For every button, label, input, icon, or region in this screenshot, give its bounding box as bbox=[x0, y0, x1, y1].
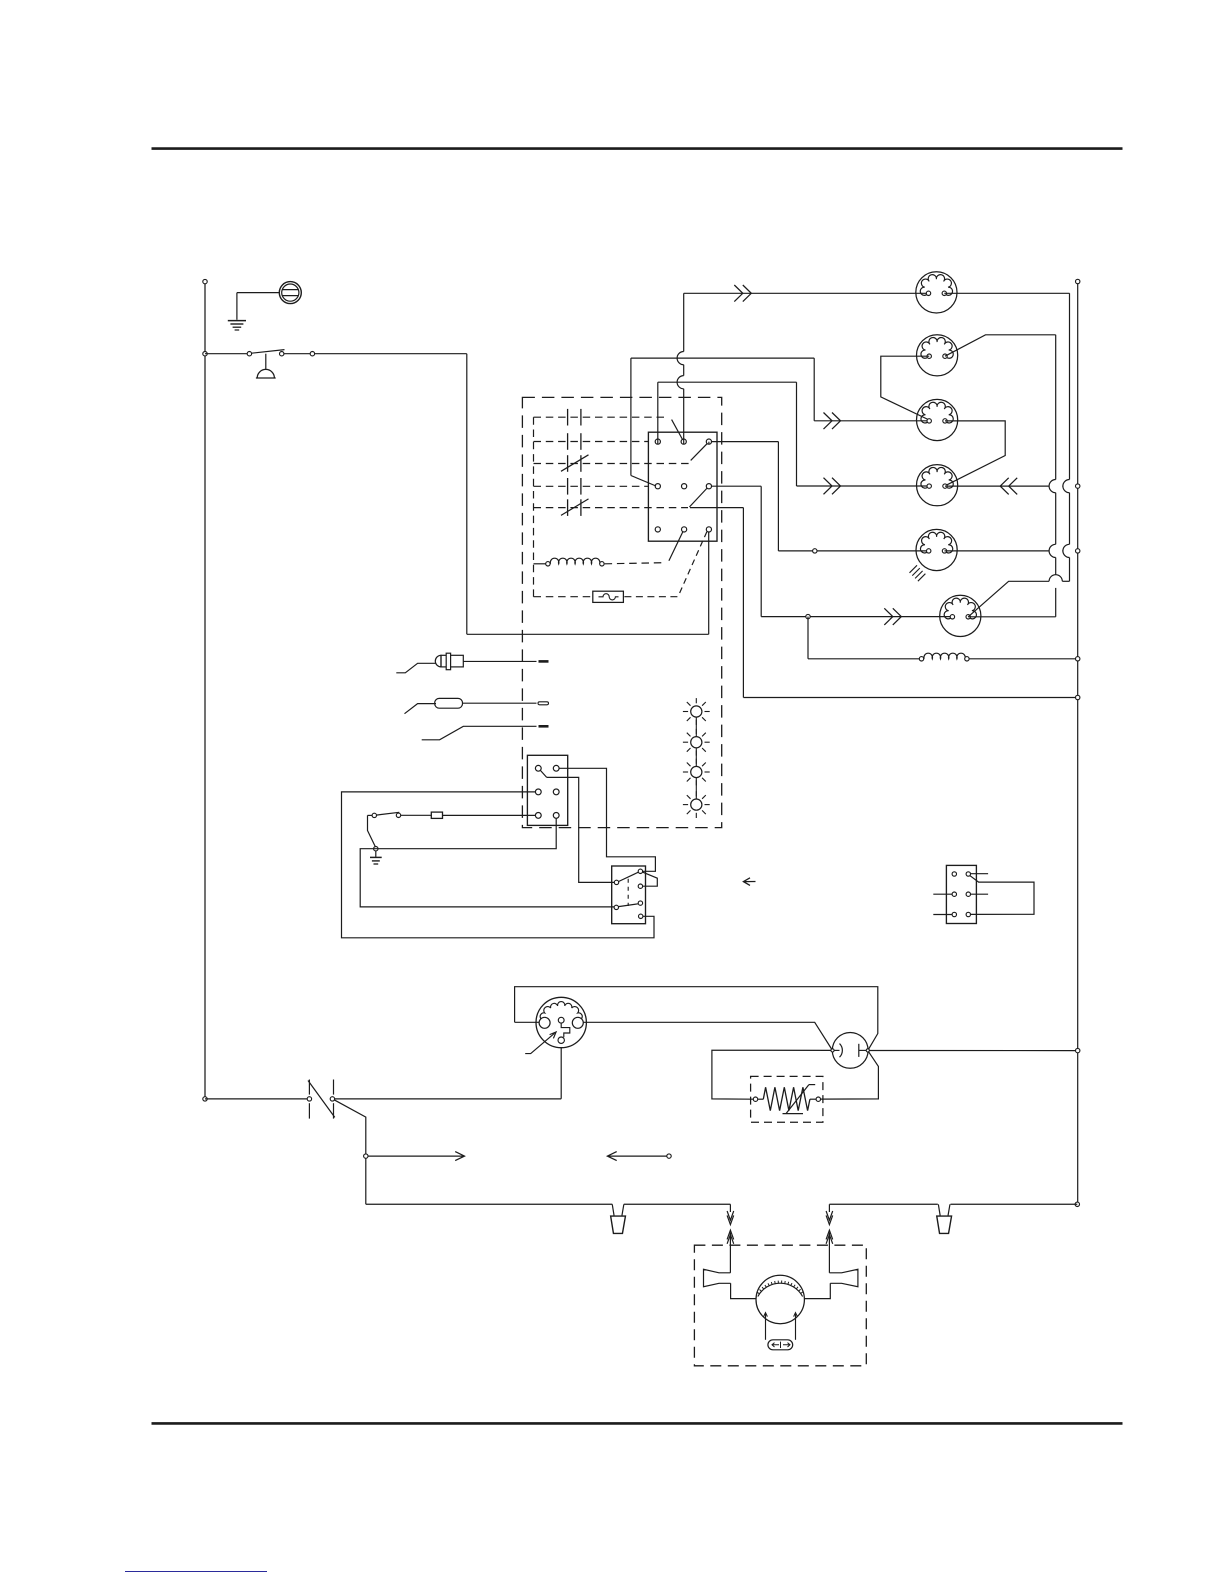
lead tip P3 bbox=[539, 725, 549, 728]
wire left bullet to motor bbox=[731, 1283, 757, 1298]
P4 pointer arrow bbox=[525, 1032, 556, 1054]
pilot lamp 1 bbox=[691, 706, 702, 717]
pilot lamp 3 bbox=[691, 766, 702, 777]
arrow left indicator bbox=[607, 1152, 666, 1161]
fuse F1 bbox=[279, 282, 301, 304]
wire C6 jumper to bus B bbox=[968, 581, 1049, 617]
J1 blade bbox=[540, 770, 546, 777]
wire big loop left bbox=[466, 354, 468, 635]
wire C2 ring to C3 bbox=[881, 356, 929, 420]
wire C4 right to bus C bbox=[945, 485, 1049, 487]
lead tip P1 bbox=[539, 660, 549, 663]
wire C6 right to bus A bbox=[968, 616, 1055, 618]
node bus C row697 bbox=[1076, 695, 1080, 699]
node bus C row1050 bbox=[1076, 1048, 1080, 1052]
P4 key step bbox=[561, 1023, 570, 1037]
K1 jumper bbox=[643, 872, 658, 886]
spark plug lead P1 bbox=[396, 663, 436, 673]
wire to ground G2 bbox=[368, 815, 376, 847]
aux connector J2 box bbox=[946, 865, 976, 923]
K1 pins bbox=[614, 880, 618, 884]
node bus C bottom corner bbox=[1075, 1202, 1079, 1206]
node splice C6 feed bbox=[806, 614, 810, 618]
trim motor M1 bbox=[756, 1275, 804, 1323]
connector C6 bbox=[940, 595, 981, 636]
wire P4 bottom lead bbox=[560, 1048, 562, 1099]
wire P4 right lead to breaker bbox=[583, 1022, 831, 1049]
wire breaker to bus C bbox=[869, 1050, 1075, 1052]
wire J1 mid-left outer loop bbox=[342, 792, 655, 938]
lead P3 bbox=[422, 726, 537, 740]
J2 mid stubs bbox=[933, 893, 952, 895]
breaker points B1 bbox=[832, 1033, 868, 1069]
wire resistor left loop bbox=[712, 1050, 831, 1099]
switch S1 horn button bbox=[247, 352, 251, 356]
wire breaker to resistor right bbox=[821, 1052, 879, 1099]
blade fuse dashed bbox=[678, 532, 707, 596]
wire mid-right pin to connector C6 bbox=[711, 485, 761, 487]
wire top-right pin to connector C5 bbox=[708, 442, 710, 444]
dashed contact row5 bbox=[534, 507, 689, 509]
blade top bbox=[672, 420, 683, 440]
dashed contact row4 bbox=[534, 485, 649, 487]
bus B vertical bbox=[1069, 293, 1071, 479]
node bus C row551 bbox=[1076, 549, 1080, 553]
wire stop switch drop bbox=[334, 1100, 366, 1205]
arrow right indicator bbox=[368, 1152, 465, 1161]
connector feed chevron 4 bbox=[824, 478, 841, 495]
P4 center pin bbox=[558, 1017, 564, 1023]
K1 blade 1 bbox=[619, 872, 639, 881]
wire H1 middle-left pin to connector C3 bbox=[631, 357, 814, 359]
wire big loop right up to switch pin bbox=[708, 532, 710, 635]
switch S3 accessory bbox=[396, 813, 400, 817]
resistor tap bbox=[809, 1084, 815, 1086]
horn bell bbox=[265, 354, 267, 370]
wire J1 top-right to relay bbox=[559, 768, 655, 871]
dashed fuse to blade bbox=[624, 596, 677, 598]
bottom bus right segment bbox=[829, 1203, 937, 1205]
node drop arrow bbox=[364, 1154, 368, 1158]
K1 blade 2 bbox=[619, 904, 639, 907]
inductor L2 row bbox=[807, 617, 809, 659]
J2 pins bbox=[952, 872, 956, 876]
wire big loop bottom bbox=[467, 633, 709, 635]
blade row5 bbox=[689, 488, 707, 507]
inline device on accessory lead bbox=[431, 812, 442, 818]
wire stop switch to key connector bbox=[335, 1098, 562, 1100]
slash row5 bbox=[561, 499, 589, 516]
K1 actuator dashed bbox=[627, 879, 629, 906]
connector C5 bbox=[916, 529, 957, 570]
node bus C row659 bbox=[1076, 657, 1080, 661]
wire C3 ring to C4 bbox=[945, 421, 1005, 485]
left bullet connector bbox=[704, 1269, 731, 1286]
lead P2 bbox=[405, 704, 437, 714]
wire horn row bbox=[284, 353, 467, 355]
resistor R1 bbox=[753, 1097, 757, 1101]
node bus C row486 bbox=[1076, 484, 1080, 488]
blade coil bbox=[669, 532, 683, 561]
lead tip P2 bbox=[538, 702, 549, 705]
wire key connector top loop bbox=[515, 987, 878, 1049]
fuse F2 row dashed bbox=[534, 596, 593, 598]
chevron left C4 row bbox=[1000, 478, 1017, 495]
node left bus bottom bbox=[203, 1097, 207, 1101]
right bullet connector bbox=[829, 1269, 858, 1286]
wire C5 right to bus C bbox=[945, 550, 1050, 552]
connector C2 bbox=[917, 335, 958, 376]
footer link underline bbox=[125, 1571, 267, 1572]
relay K1 box bbox=[612, 866, 646, 924]
hatch marks C5 bbox=[910, 565, 918, 573]
wire row 697 to bus C bbox=[743, 697, 1075, 699]
motor capsule bbox=[768, 1340, 793, 1350]
dashed contact row3 bbox=[534, 463, 691, 465]
wire P4 left lead bbox=[515, 1021, 540, 1023]
wire M-terminal to connector C1 bbox=[683, 389, 685, 444]
motor teeth bbox=[757, 1281, 803, 1294]
fork connector 2 bbox=[938, 1204, 940, 1215]
J2 bot-left stub bbox=[933, 914, 952, 916]
motor lower leads bbox=[765, 1313, 767, 1340]
wire J1 blade to relay bbox=[547, 777, 615, 882]
resistor R1 dashed box bbox=[751, 1076, 823, 1122]
wire bus to horn switch bbox=[205, 353, 249, 355]
node/terminal left bus top bbox=[204, 284, 206, 1097]
dashed contact row2 bbox=[534, 441, 649, 443]
dashed coil to blade bbox=[605, 563, 666, 564]
arrow pair break 2 bbox=[828, 1204, 830, 1212]
pilot lamp 4 bbox=[691, 799, 702, 810]
bus A vertical bbox=[1055, 335, 1057, 480]
connector feed chevron 6 bbox=[884, 608, 901, 625]
arrow pointer left bbox=[743, 878, 755, 886]
fork connector 1 bbox=[612, 1204, 614, 1215]
wire fuse to ground bbox=[237, 292, 279, 294]
accessory connector J1 box bbox=[527, 755, 567, 825]
wire J1 bot-right inner loop bbox=[360, 818, 614, 907]
ground G2 bbox=[370, 856, 382, 858]
fuse F2 bbox=[593, 591, 624, 602]
arrow pair break 1 bbox=[729, 1204, 731, 1212]
P4 bottom pin bbox=[558, 1037, 564, 1043]
wire right bullet to motor bbox=[804, 1283, 830, 1298]
node splice C5 feed bbox=[813, 549, 817, 553]
bottom footer rule bbox=[152, 1422, 1123, 1425]
ignition switch pins bbox=[655, 439, 660, 444]
wire bus to stop switch bbox=[205, 1098, 307, 1100]
key connector P4 body bbox=[536, 997, 586, 1047]
node left bus at horn switch bbox=[203, 352, 207, 356]
bus C right vertical bbox=[1077, 284, 1079, 1205]
bottom bus left segment bbox=[366, 1203, 613, 1205]
slash row3 bbox=[561, 455, 589, 472]
coil choke bbox=[534, 563, 546, 565]
P4 right pin bbox=[572, 1017, 583, 1028]
wire C2 right diagonal to bus A bbox=[945, 335, 1056, 356]
ignition switch SW2 box bbox=[648, 432, 717, 541]
J1 pins bbox=[535, 765, 541, 771]
rail dashed left bbox=[533, 417, 535, 597]
dashed enclosure control head bbox=[522, 397, 721, 827]
ground G1 bbox=[228, 320, 246, 322]
wire J1 bot-left accessory lead bbox=[443, 814, 536, 816]
wire blade row5 to bus right bbox=[690, 507, 743, 509]
connector feed chevron 1 bbox=[734, 285, 751, 302]
connector C3 bbox=[917, 399, 958, 440]
P4 left pin bbox=[539, 1017, 550, 1028]
terminal bus C top bbox=[1076, 279, 1080, 283]
P4 petals bbox=[540, 1002, 582, 1021]
top header rule bbox=[152, 147, 1123, 150]
J2 top-right stub bbox=[971, 873, 989, 875]
connector C1 bbox=[916, 272, 957, 313]
blade row3 bbox=[691, 443, 708, 460]
connector feed chevron 3 bbox=[824, 413, 841, 430]
wire C1 right to bus B bbox=[944, 292, 1069, 294]
connector C4 bbox=[917, 465, 958, 506]
pilot lamp chain wire bbox=[695, 706, 697, 810]
pilot lamp 2 bbox=[691, 737, 702, 748]
stop switch S2 bbox=[307, 1097, 311, 1101]
J2 jumper loop bbox=[970, 876, 1034, 915]
dashed contact row1 bbox=[534, 416, 665, 418]
wire H2 top-left pin to connector C4 bbox=[657, 382, 659, 444]
trim motor dashed box bbox=[694, 1245, 866, 1366]
